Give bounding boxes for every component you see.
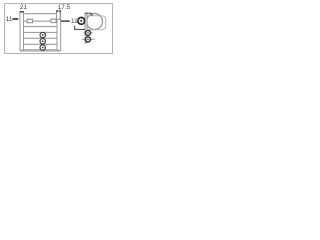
screw A slot [80,20,82,22]
screw C slot [87,39,89,41]
slat line 1 [24,20,57,22]
flange line through screw B [83,32,93,34]
border frame [5,4,113,54]
screw S2 slot [42,40,44,42]
sleeve bottom inner edge [24,49,58,51]
sleeve left wall [20,12,24,51]
sleeve left ear cap [20,11,24,13]
leader dash middle 11 [61,20,70,21]
sleeve right ear [57,11,61,20]
right view plate [85,13,87,43]
slat tab left [27,19,32,23]
slat tab right [51,19,56,23]
screw S3 slot [42,47,44,49]
svg-text:17.5: 17.5 [58,4,71,11]
svg-text:11: 11 [6,16,13,23]
sleeve right ear cap right leg [59,10,61,12]
screw circle C [86,37,91,42]
slat line 3 [24,31,57,33]
screw circle S2 [40,39,45,44]
leader dash left 11 [12,18,18,20]
flange line through screw C [82,38,95,40]
screw circle S1 [40,32,45,37]
leader elbow [75,26,85,30]
right view top tab [85,13,92,15]
sleeve top edge [24,13,57,15]
slat line 5 [24,43,57,45]
svg-text:11: 11 [71,18,78,25]
screw S1 slot [42,34,44,36]
sleeve bottom outer edge [20,50,61,52]
screw circle A [78,18,85,25]
svg-text:21: 21 [20,4,28,11]
screw B slot [87,32,89,34]
sleeve right wall [57,11,61,50]
screw circle B [86,30,91,35]
slat line 4 [24,37,57,39]
right view big circle [87,14,103,30]
screw circle S3 [40,45,45,50]
right view cup body [87,16,106,30]
background [0,0,120,58]
slat line 2 [24,26,57,28]
sleeve right ear cap left leg [56,10,58,12]
